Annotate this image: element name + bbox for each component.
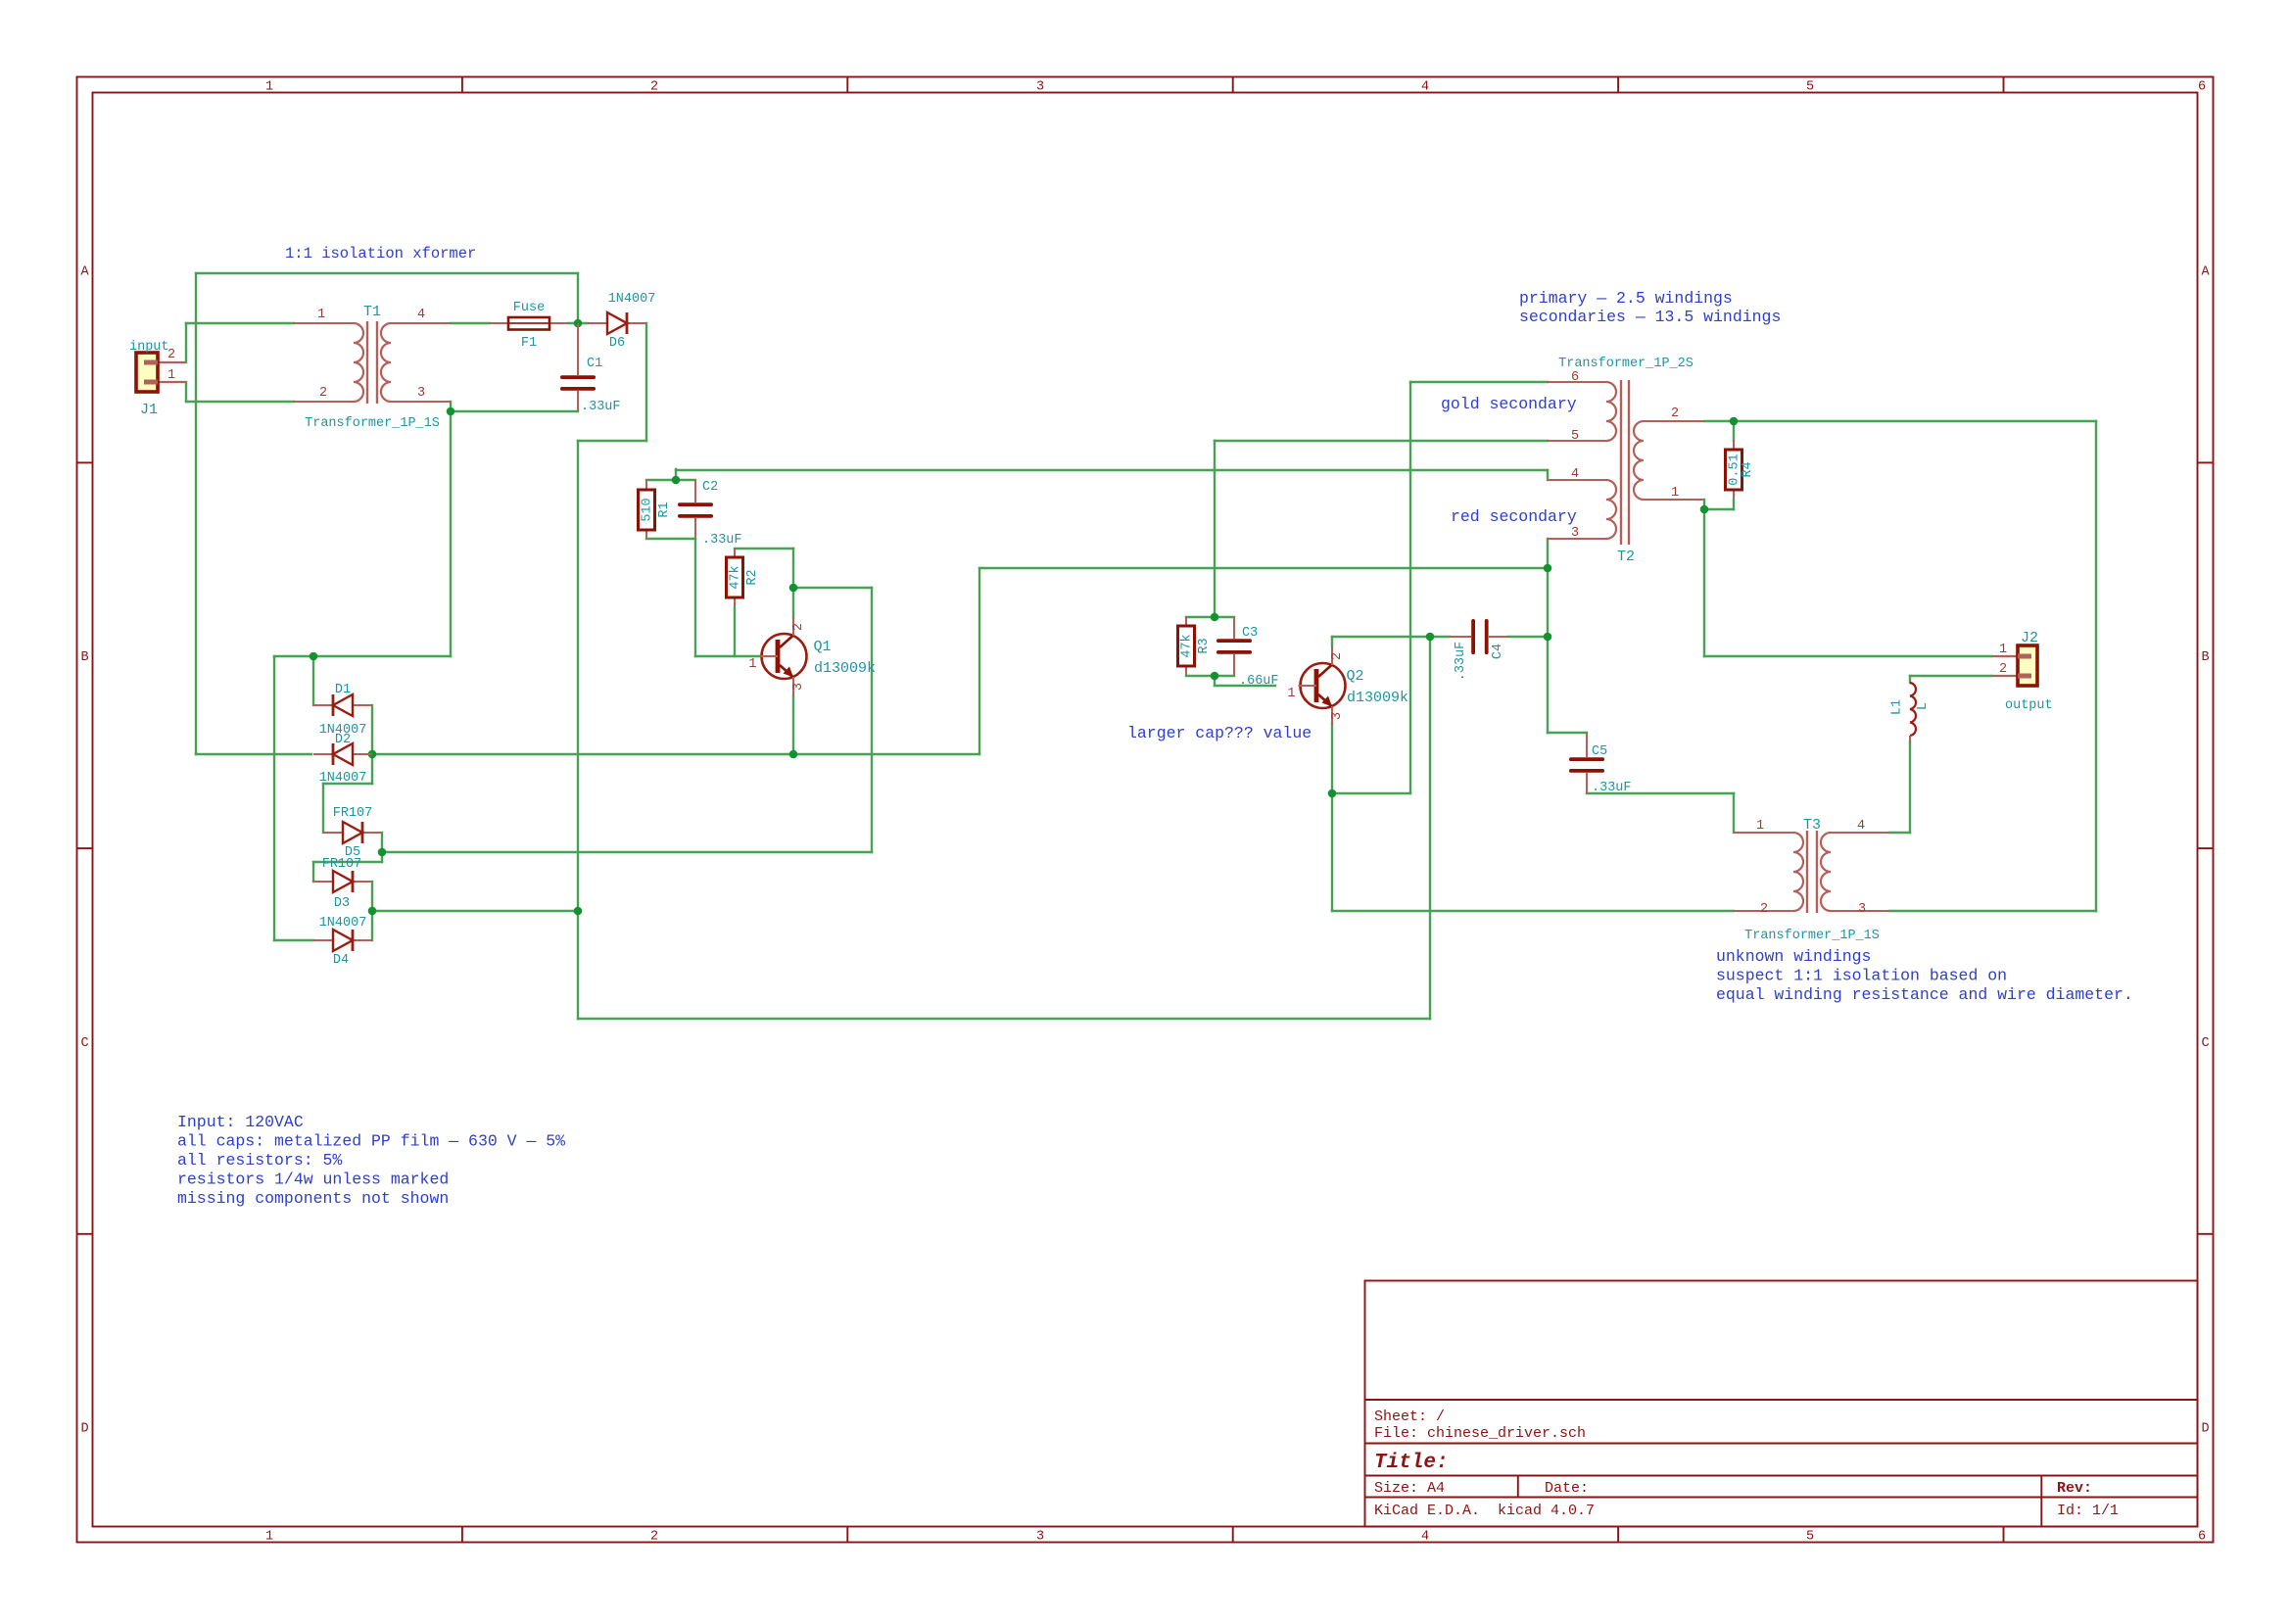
wire [323,783,372,785]
svg-text:File: chinese_driver.sch: File: chinese_driver.sch [1374,1425,1586,1442]
diode D1 [313,683,372,738]
svg-text:3: 3 [417,386,425,401]
svg-text:1: 1 [265,80,273,95]
capacitor C2 [678,480,742,548]
transistor Q1 [748,617,876,695]
svg-text:6: 6 [2198,1530,2206,1545]
svg-text:1: 1 [1999,643,2007,657]
svg-text:R1: R1 [657,502,672,517]
wire [1733,500,1735,509]
svg-text:1N4007: 1N4007 [319,916,367,931]
svg-text:resistors 1/4w unless marked: resistors 1/4w unless marked [177,1170,449,1189]
wire [1215,440,1548,442]
svg-text:1N4007: 1N4007 [608,292,656,307]
transformer T1 [294,304,451,431]
svg-text:1: 1 [1287,687,1295,701]
svg-text:unknown windings: unknown windings [1716,947,1871,966]
svg-text:J1: J1 [140,402,158,418]
wire [381,833,383,852]
wire [871,588,873,852]
junction [368,907,377,916]
inductor L1 [1890,683,1932,741]
resistor R4 [1726,440,1756,499]
capacitor C5 [1569,733,1632,795]
svg-text:1:1 isolation xformer: 1:1 isolation xformer [285,245,476,263]
wire [196,272,578,274]
svg-text:3: 3 [1571,526,1579,541]
junction [1211,613,1219,622]
wire [1214,441,1216,617]
junction [447,407,455,416]
wire [274,939,313,941]
wire [371,705,373,754]
capacitor C3 [1217,617,1279,689]
svg-text:.66uF: .66uF [1239,674,1279,689]
wire [1331,723,1333,793]
svg-text:Transformer_1P_1S: Transformer_1P_1S [305,416,440,431]
svg-text:Fuse: Fuse [513,301,545,315]
junction [368,750,377,759]
svg-text:R4: R4 [1741,461,1755,477]
svg-text:2: 2 [319,386,327,401]
svg-text:6: 6 [2198,80,2206,95]
diode D6 [588,292,655,351]
svg-text:1: 1 [317,308,325,322]
svg-text:Q1: Q1 [814,639,832,655]
svg-text:d13009k: d13009k [1347,690,1408,706]
wire [1508,636,1548,638]
wire [1547,539,1549,733]
wire [577,273,579,323]
wire [1409,382,1411,793]
wire [578,440,646,442]
wire [450,411,452,656]
svg-text:.33uF: .33uF [1454,642,1468,682]
wire [1704,655,1991,657]
svg-text:Transformer_1P_2S: Transformer_1P_2S [1558,357,1694,371]
svg-text:1N4007: 1N4007 [319,771,367,786]
svg-text:all resistors: 5%: all resistors: 5% [177,1151,342,1170]
svg-text:B: B [80,650,88,665]
svg-text:1: 1 [265,1530,273,1545]
svg-text:.33uF: .33uF [1592,781,1632,795]
svg-text:.33uF: .33uF [702,533,742,548]
svg-text:larger cap??? value: larger cap??? value [1127,724,1312,742]
svg-text:D: D [80,1422,88,1437]
wire [312,862,314,882]
wire [1410,381,1548,383]
resistor R1 [639,480,673,539]
wire [676,469,1548,471]
svg-text:3: 3 [1330,712,1345,720]
svg-text:FR107: FR107 [333,806,373,821]
wire [1703,509,1705,656]
junction [1328,789,1337,798]
junction [672,476,681,485]
wire [372,753,979,755]
junction [378,848,387,857]
wire [451,410,578,412]
svg-text:4: 4 [1857,819,1865,834]
svg-text:A: A [80,265,89,280]
svg-text:Size: A4: Size: A4 [1374,1480,1445,1497]
wire [1215,685,1275,687]
svg-text:2: 2 [1760,902,1768,917]
junction [1426,633,1435,642]
svg-text:D4: D4 [333,953,349,968]
svg-text:A: A [2201,265,2210,280]
wire [979,567,1548,569]
svg-text:D1: D1 [335,683,351,697]
svg-text:C2: C2 [702,480,718,495]
wire [793,587,872,589]
wire [1331,793,1333,911]
wire [1332,636,1450,638]
connector J2 [1991,630,2053,713]
svg-text:secondaries — 13.5 windings: secondaries — 13.5 windings [1519,308,1781,326]
diode D2 [313,733,372,786]
wire [1214,676,1216,686]
svg-text:1: 1 [1671,486,1679,501]
wire [1704,508,1734,510]
junction [310,652,318,661]
svg-text:2: 2 [1330,652,1345,660]
svg-text:KiCad E.D.A. kicad 4.0.7: KiCad E.D.A. kicad 4.0.7 [1374,1503,1595,1519]
svg-text:C3: C3 [1242,626,1258,641]
svg-text:2: 2 [167,348,175,362]
diode D4 [313,916,372,968]
svg-text:T1: T1 [363,304,381,320]
wire [274,655,451,657]
wire [185,382,187,402]
svg-text:FR107: FR107 [322,857,362,872]
wire [1332,910,1734,912]
svg-text:Input: 120VAC: Input: 120VAC [177,1113,304,1131]
wire [568,322,588,324]
wire [195,273,197,754]
wire [372,910,578,912]
svg-text:5: 5 [1806,80,1814,95]
wire [792,695,794,754]
capacitor C1 [560,323,621,414]
svg-text:5: 5 [1571,429,1579,444]
svg-text:D6: D6 [609,336,625,351]
wire [1703,500,1705,509]
wire [734,607,736,656]
wire [1429,637,1431,1019]
junction [1730,417,1739,426]
svg-text:B: B [2201,650,2209,665]
svg-text:all caps: metalized PP film —: all caps: metalized PP film — 630 V — 5% [177,1132,565,1151]
capacitor C4 [1450,619,1508,681]
svg-text:Title:: Title: [1374,1452,1449,1474]
svg-text:J2: J2 [2021,630,2038,646]
svg-text:4: 4 [1421,1530,1429,1545]
wire [1909,741,1911,833]
wire [694,539,696,656]
wire [578,1018,1430,1020]
wire [1548,732,1587,734]
svg-text:5: 5 [1806,1530,1814,1545]
svg-text:output: output [2005,698,2053,713]
svg-text:Transformer_1P_1S: Transformer_1P_1S [1744,929,1880,943]
wire [1889,910,2096,912]
svg-text:D: D [2201,1422,2209,1437]
svg-text:input: input [129,340,169,355]
svg-text:equal winding resistance and w: equal winding resistance and wire diamet… [1716,985,2133,1004]
wire [2095,421,2097,911]
svg-text:2: 2 [650,80,658,95]
resistor R2 [727,548,761,606]
svg-text:Sheet: /: Sheet: / [1374,1409,1445,1425]
wire [792,588,794,618]
svg-text:D3: D3 [334,896,350,911]
wire [313,861,382,863]
svg-text:L: L [1916,702,1931,710]
wire [1889,832,1910,834]
wire [675,469,677,480]
svg-text:Id: 1/1: Id: 1/1 [2057,1503,2119,1519]
wire [273,656,275,940]
wire [381,852,383,862]
svg-text:3: 3 [1858,902,1866,917]
wire [978,568,980,754]
svg-text:Q2: Q2 [1347,668,1364,685]
wire [185,323,187,362]
svg-text:D2: D2 [335,733,351,747]
junction [574,319,583,328]
svg-text:47k: 47k [729,565,743,589]
svg-text:6: 6 [1571,370,1579,385]
wire [186,322,294,324]
wire [312,656,314,705]
wire [1909,676,1911,683]
svg-text:1: 1 [1756,819,1764,834]
wire [1587,792,1734,794]
svg-text:2: 2 [791,623,806,631]
svg-text:2: 2 [1671,406,1679,421]
svg-text:3: 3 [791,683,806,691]
junction [1544,564,1552,573]
svg-text:gold secondary: gold secondary [1441,395,1577,413]
svg-text:C: C [2201,1036,2209,1051]
svg-text:2: 2 [1999,662,2007,677]
wire [1704,420,2096,422]
svg-text:510: 510 [641,498,655,521]
wire [322,784,324,833]
wire [1186,616,1234,618]
svg-text:F1: F1 [521,336,537,351]
svg-text:4: 4 [1571,467,1579,482]
svg-text:R3: R3 [1197,638,1212,653]
wire [577,441,579,1019]
svg-text:4: 4 [1421,80,1429,95]
svg-text:primary — 2.5 windings: primary — 2.5 windings [1519,289,1733,308]
title block [1365,1281,2198,1527]
wire [371,882,373,940]
wire [646,479,695,481]
svg-text:suspect 1:1 isolation based on: suspect 1:1 isolation based on [1716,967,2007,985]
junction [789,584,798,593]
wire [186,401,294,403]
wire [451,322,490,324]
junction [1700,505,1709,514]
svg-text:d13009k: d13009k [814,660,876,677]
svg-text:T2: T2 [1617,549,1635,565]
svg-text:1: 1 [748,657,756,672]
svg-text:1: 1 [167,368,175,383]
junction [789,750,798,759]
svg-text:R2: R2 [745,569,760,585]
transformer T3 [1734,817,1889,943]
wire [382,851,872,853]
wire [735,548,793,549]
wire [1910,675,1991,677]
svg-text:C4: C4 [1491,644,1505,659]
svg-text:C: C [80,1036,88,1051]
wire [1186,675,1234,677]
wire [1547,470,1549,480]
diode D5 [323,806,382,860]
svg-text:missing components not shown: missing components not shown [177,1189,449,1208]
diode D3 [313,857,372,911]
wire [695,655,762,657]
junction [1211,672,1219,681]
junction [574,907,583,916]
svg-text:C5: C5 [1592,744,1607,759]
wire [196,753,311,755]
wire [646,538,695,540]
wire [450,402,452,411]
wire [645,323,647,441]
wire [1332,792,1410,794]
resistor R3 [1178,616,1213,675]
connector J1 [129,340,185,418]
svg-text:C1: C1 [587,357,602,371]
transistor Q2 [1287,646,1408,725]
wire [1733,421,1735,441]
svg-text:red secondary: red secondary [1451,507,1577,526]
svg-text:Rev:: Rev: [2057,1480,2092,1497]
transformer T2 [1548,357,1704,565]
svg-text:47k: 47k [1180,634,1195,657]
fuse F1 [490,301,568,351]
junction [1544,633,1552,642]
wire [1331,637,1333,646]
wire [371,754,373,784]
svg-text:3: 3 [1036,1530,1044,1545]
svg-text:L1: L1 [1890,699,1905,715]
svg-text:T3: T3 [1803,817,1821,834]
svg-text:.33uF: .33uF [581,400,621,414]
svg-text:Date:: Date: [1545,1480,1589,1497]
wire [792,549,794,588]
svg-text:4: 4 [417,308,425,322]
svg-text:3: 3 [1036,80,1044,95]
wire [1733,793,1735,833]
svg-text:2: 2 [650,1530,658,1545]
